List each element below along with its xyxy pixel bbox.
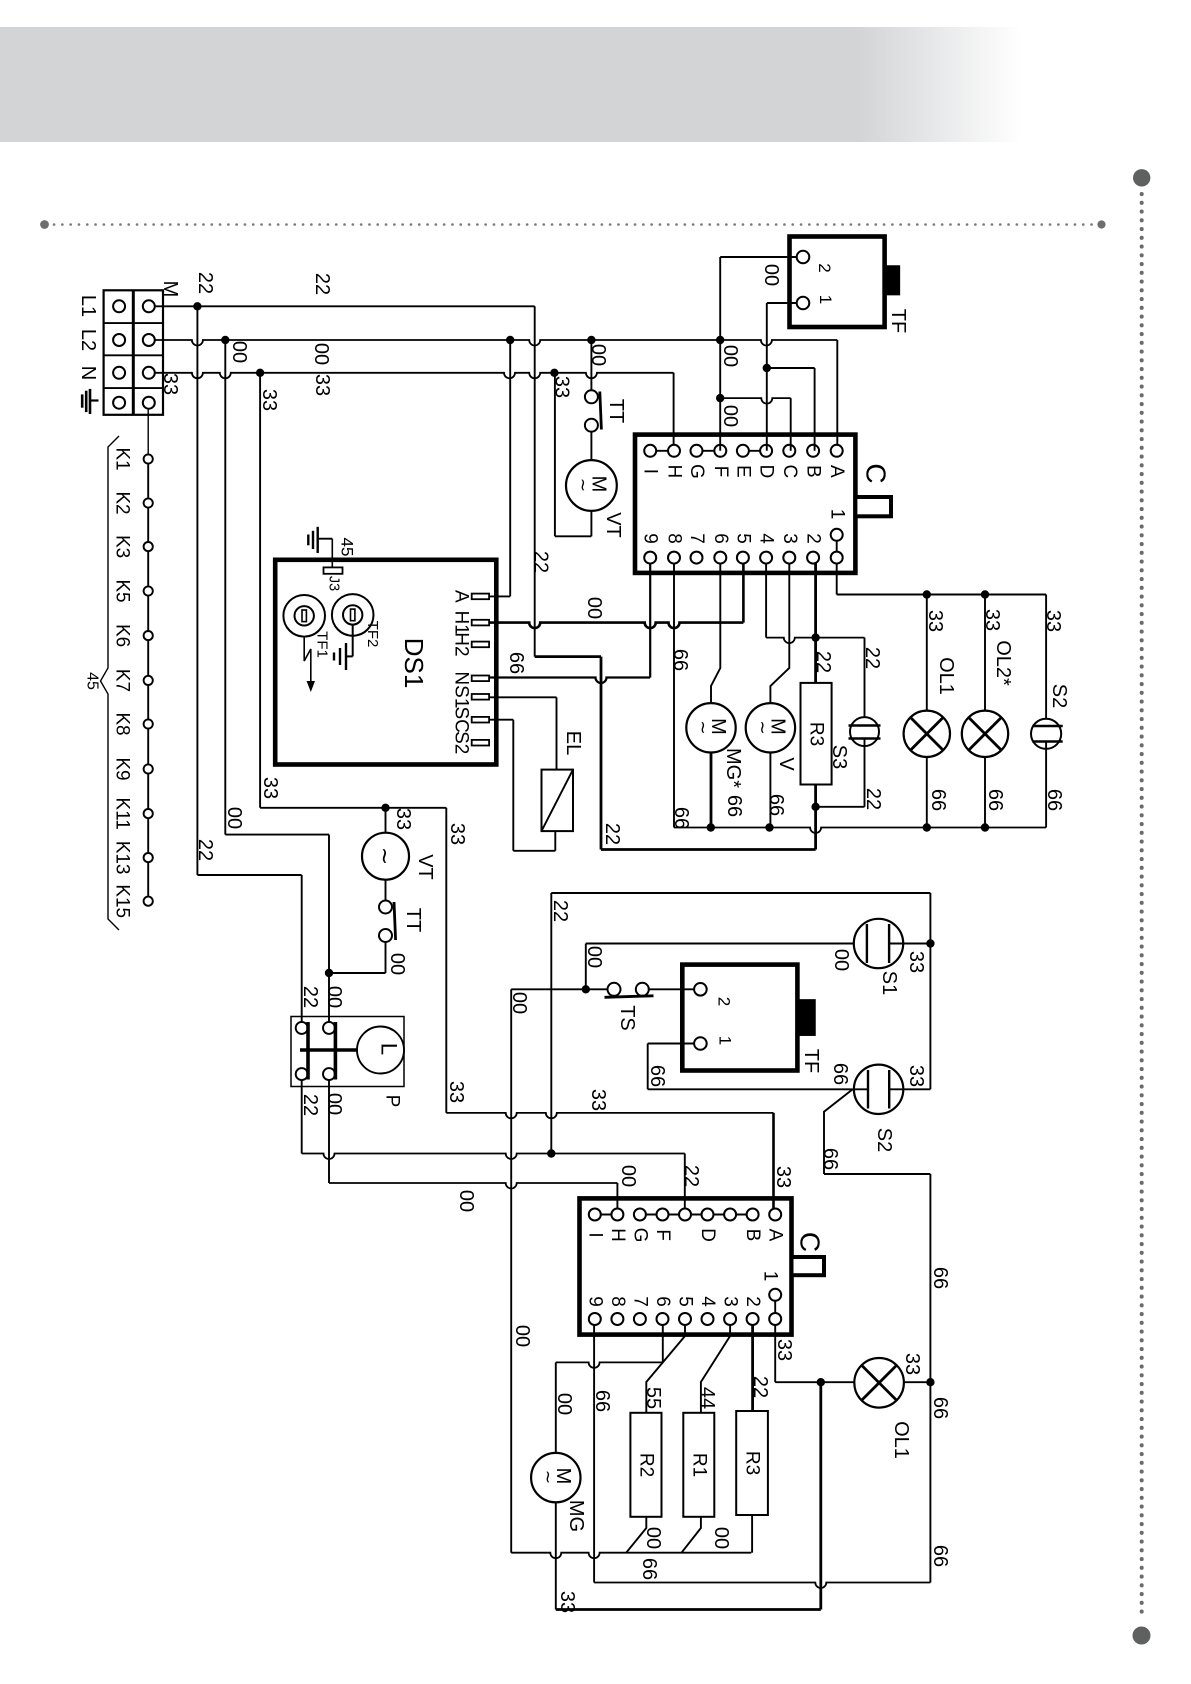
svg-text:∼: ∼ [753,720,772,734]
large grey dot bottom [1133,1627,1151,1645]
svg-text:A: A [451,590,472,603]
wire 66 from pin 8 to 66 bus [673,563,675,827]
svg-text:33: 33 [551,376,573,398]
svg-text:00: 00 [642,1527,664,1549]
svg-text:00: 00 [323,1093,345,1115]
svg-text:55: 55 [642,1387,664,1409]
svg-text:TF: TF [800,1049,822,1073]
svg-text:G: G [686,464,707,479]
svg-text:∼: ∼ [373,847,398,865]
surge arrow of TF1 [304,637,315,692]
svg-text:00: 00 [455,1190,477,1212]
svg-text:5: 5 [732,533,753,544]
svg-text:22: 22 [601,823,623,845]
wire to pin C [720,398,791,404]
svg-text:A: A [765,1229,786,1242]
svg-text:22: 22 [530,551,552,573]
wire 22 vertical drop [534,306,536,656]
svg-text:V: V [775,757,797,771]
wire 66 from DS1 N to pin 9 [489,678,650,684]
wire 33 bus corner down to pin H of connector C [673,373,675,451]
terminal block M (L1 L2 N PE mains connector) [104,290,163,415]
svg-text:66: 66 [669,649,691,671]
svg-text:∼: ∼ [538,1470,557,1484]
svg-text:3: 3 [720,1296,741,1307]
svg-text:S1: S1 [451,685,472,708]
svg-text:00: 00 [386,953,408,975]
svg-text:SC: SC [451,706,472,732]
wire 33 bus from N [154,373,673,379]
svg-text:TT: TT [402,908,424,932]
svg-text:33: 33 [773,1339,795,1361]
svg-text:66: 66 [929,1545,951,1567]
svg-text:TT: TT [605,399,627,423]
ground symbol at J3 [308,527,332,553]
svg-text:8: 8 [664,533,685,544]
svg-text:TF: TF [887,309,909,333]
rotated schematic [77,237,1070,1614]
svg-text:33: 33 [311,374,333,396]
connector C (upper) [635,435,892,573]
wire from pin 6 to motor MG* [711,563,720,703]
svg-text:33: 33 [587,1089,609,1111]
svg-text:00: 00 [760,264,782,286]
connector C lower key tab [792,1257,825,1275]
svg-text:00: 00 [710,1527,732,1549]
wire 66 from S2 left down to lamp line [824,1089,853,1174]
svg-text:I: I [640,469,661,474]
wire 00 from P to pin H of lower connector [328,1080,330,1183]
svg-text:D: D [697,1228,718,1242]
svg-text:TF1: TF1 [314,631,331,658]
svg-text:TF2: TF2 [364,621,381,648]
lamp OL1 (upper) [904,595,957,828]
svg-text:OL1: OL1 [935,657,957,695]
junction on 22 bus [193,302,201,310]
heater EL [542,731,585,831]
svg-text:G: G [629,1228,650,1243]
svg-text:S3: S3 [828,745,850,769]
resistor R3 [801,683,832,785]
connector C (lower) [580,1198,826,1334]
svg-text:N: N [77,366,99,380]
svg-text:33: 33 [258,389,280,411]
svg-text:44: 44 [696,1387,718,1409]
svg-text:E: E [732,465,753,478]
svg-text:66: 66 [819,1148,841,1170]
svg-text:MG*: MG* [722,748,744,788]
svg-text:22: 22 [299,986,321,1008]
svg-text:I: I [584,1232,605,1237]
wire 00 bus corner down to pin A of connector C [836,340,838,451]
wire 22 from junction to switches S1 S2 [550,893,552,1154]
wire from DS1 S1 to heater EL [489,696,556,698]
svg-text:7: 7 [686,533,707,544]
svg-text:33: 33 [905,1065,927,1087]
svg-text:OL2*: OL2* [992,640,1014,686]
svg-text:66: 66 [927,789,949,811]
svg-text:00: 00 [719,345,741,367]
wire 22 from pin 2 to resistor R3 [814,563,817,683]
svg-text:MG: MG [565,1500,587,1532]
svg-text:∼: ∼ [694,720,713,734]
svg-text:00: 00 [511,1325,533,1347]
svg-text:00: 00 [228,341,250,363]
svg-text:OL1: OL1 [890,1421,912,1459]
svg-text:K3: K3 [112,535,133,558]
horizontal dotted rule [54,223,1096,226]
wire from DS1 SC to heater EL bottom [489,719,513,721]
junction pin2/pin4 [811,633,819,641]
wire 66 from TF pin 1 to S2 left [648,1043,694,1045]
svg-text:33: 33 [159,373,181,395]
svg-text:22: 22 [862,788,884,810]
thermal cutout TF (lower) [682,965,797,1071]
svg-text:L1: L1 [77,295,99,317]
svg-text:K9: K9 [112,757,133,780]
svg-text:22: 22 [194,272,216,294]
DS1 pin stubs A H1 H2 N S1 SC S2 [451,590,490,754]
wire 00 branch from L2 dot down left side [224,340,226,835]
svg-text:22: 22 [861,647,883,669]
svg-text:R3: R3 [806,722,827,746]
wire 22 branch from L1 dot down left side [196,306,198,875]
jumper J3 [324,567,343,591]
wire 33 branch from N dot down to lower section [259,373,261,808]
wire 22 from L1 drop to R3 junction [535,655,601,658]
grey header band [0,27,1022,142]
vertical dotted rule [1140,194,1144,1620]
svg-text:00: 00 [323,986,345,1008]
svg-text:66: 66 [723,795,745,817]
motor V [746,703,797,771]
svg-text:00: 00 [508,992,530,1014]
svg-text:EL: EL [562,731,584,755]
svg-text:22: 22 [749,1376,771,1398]
svg-text:S1: S1 [878,971,900,995]
svg-text:5: 5 [675,1296,696,1307]
svg-text:B: B [803,465,824,478]
svg-text:45: 45 [84,672,101,690]
connector C key tab [855,497,891,516]
junction 22/P line [547,1149,555,1157]
wire 00 from pin 6 to motor MG [662,1325,664,1363]
svg-text:M: M [159,281,181,298]
svg-text:22: 22 [549,900,571,922]
svg-text:K6: K6 [112,624,133,647]
svg-text:33: 33 [772,1166,794,1188]
wire 66 MG* to 66 bus [710,753,713,828]
svg-text:33: 33 [259,777,281,799]
svg-text:H1: H1 [451,610,472,634]
svg-text:33: 33 [556,1591,578,1613]
wire 45 to jumper J3 [331,539,333,568]
svg-text:66: 66 [984,789,1006,811]
wire 22 from pin 2 to resistor R3 (lower) [751,1325,754,1411]
wire 33 to pin A of lower connector C [446,1113,773,1119]
svg-text:4: 4 [756,533,777,544]
junction TS [582,985,590,993]
connector C lower bottom pin row [584,1271,781,1325]
thermostat TS [605,983,654,1031]
svg-text:66: 66 [591,1390,613,1412]
wire 44 from pin 3 to resistor R1 [701,1325,730,1413]
svg-text:S2: S2 [873,1128,895,1152]
wire 33 from MG bottom [555,1502,557,1609]
svg-text:N: N [451,671,472,685]
wire 66 bus (upper) [674,828,1046,834]
vent motor VT (lower) [362,808,436,880]
svg-text:B: B [742,1229,763,1242]
junction TF pin1 / pin B wire [763,364,771,372]
junction at OL1 right [926,1378,934,1386]
svg-text:D: D [756,465,777,479]
svg-text:33: 33 [901,1353,923,1375]
svg-text:00: 00 [587,344,609,366]
resistor R1 [683,1413,714,1517]
bracket 45 spanning contact chain [84,436,120,930]
svg-text:6: 6 [710,533,731,544]
wire R3 bottom to junction [814,785,817,807]
resistor R2 [630,1413,661,1517]
svg-text:33: 33 [446,823,468,845]
door interlock TT (lower) [379,880,424,942]
wire S1 right plate to 22 line [889,943,930,945]
wire 00 bus from L2 [154,340,837,346]
svg-text:1: 1 [827,509,848,520]
svg-text:6: 6 [652,1296,673,1307]
junction OL1 top [923,590,931,598]
TF mounting tab [885,266,900,295]
svg-text:F: F [652,1229,673,1241]
door switch S2 (lower) [854,1065,903,1153]
junction on 00 branch at lower TT wire [325,969,333,977]
junction dots on 66 bus [707,823,715,831]
svg-text:2: 2 [803,533,824,544]
connector C lower pin row 1-9 [640,509,848,564]
svg-text:R1: R1 [689,1453,710,1477]
junction of TF2 wire at pin C line [716,394,724,402]
motor MG* [686,703,744,788]
svg-text:00: 00 [583,597,605,619]
svg-text:00: 00 [583,946,605,968]
svg-text:66: 66 [929,1397,951,1419]
wire 66 from pin 9 [593,1325,595,1583]
svg-text:00: 00 [617,1165,639,1187]
svg-text:H2: H2 [451,632,472,656]
wire from pin 4 to S3 [766,638,864,644]
svg-text:00: 00 [719,405,741,427]
svg-text:C: C [861,463,892,483]
svg-text:00: 00 [553,1393,575,1415]
wire TS to TF pin 2 (lower) [648,988,701,990]
svg-text:K2: K2 [112,491,133,514]
svg-text:9: 9 [640,533,661,544]
svg-text:P: P [382,1095,403,1108]
svg-text:66: 66 [929,1267,951,1289]
svg-text:TS: TS [616,1005,638,1031]
svg-text:22: 22 [680,1165,702,1187]
svg-text:R2: R2 [636,1453,657,1477]
svg-text:33: 33 [392,808,414,830]
svg-text:7: 7 [629,1296,650,1307]
junction OL1 left [817,1378,825,1386]
svg-text:66: 66 [1043,789,1065,811]
door interlock TT (upper) [585,340,627,432]
ground symbol of TF2 [334,625,353,670]
wire from TF pin 1 down to pin D [767,302,797,304]
pressure switch S3 [828,717,881,769]
svg-text:K1: K1 [112,447,133,470]
ground symbol PE at terminal block [82,389,98,414]
svg-text:33: 33 [445,1081,467,1103]
wire 66 down right side to OL1 [929,1174,931,1583]
svg-text:1: 1 [716,1036,735,1045]
wire from DS1 pin A to 00 bus [489,595,510,597]
svg-text:F: F [710,466,731,478]
svg-text:9: 9 [584,1296,605,1307]
svg-text:66: 66 [638,1558,660,1580]
svg-text:8: 8 [607,1296,628,1307]
motor MG [531,1453,587,1532]
svg-text:3: 3 [779,533,800,544]
wire R2 bottom to 00 bus [626,1517,646,1553]
svg-text:2: 2 [742,1296,763,1307]
wire from PE terminal to contact chain [147,408,149,455]
wire 33 from VT to 33 bus [590,511,592,536]
svg-text:45: 45 [338,538,357,557]
svg-text:22: 22 [311,273,333,295]
resistor R3 (lower) [736,1411,768,1515]
svg-text:DS1: DS1 [399,638,429,689]
svg-text:00: 00 [223,807,245,829]
svg-text:R3: R3 [742,1451,763,1475]
svg-text:K13: K13 [112,841,133,875]
junction S1 [926,939,934,947]
junction on 33 branch at vent motor VT [381,804,389,812]
svg-text:66: 66 [646,1065,668,1087]
svg-text:K11: K11 [112,797,133,829]
junction R3/S3/22 [811,803,819,811]
svg-text:K8: K8 [112,712,133,735]
wire 22 from P to pin E of lower connector [301,1080,303,1154]
svg-text:S2: S2 [1048,684,1070,708]
svg-text:33: 33 [905,951,927,973]
svg-text:K5: K5 [112,579,133,602]
svg-text:H: H [664,465,685,479]
svg-text:K7: K7 [112,669,133,692]
wire S2 to 66 bus [1045,742,1047,828]
svg-text:VT: VT [602,512,624,538]
wire 00 thermostat line [511,988,608,990]
svg-text:4: 4 [697,1296,718,1307]
timer module DS1 [275,560,496,765]
svg-text:66: 66 [505,652,527,674]
svg-text:C: C [795,1232,826,1252]
door switch S1 [854,919,903,995]
svg-text:2: 2 [815,263,834,272]
wire 00 up to S1 [585,944,587,990]
svg-text:22: 22 [299,1094,321,1116]
svg-text:VT: VT [414,854,436,880]
interference suppressor TF2 inside DS1 [332,594,381,647]
wire S2 right plate to 22 line [889,1088,930,1090]
wire 22 bus from L1 [154,305,534,307]
wire 00 from TF pin 2 to 00 bus [720,256,797,258]
svg-text:∼: ∼ [574,478,593,492]
junction OL2 top [981,590,989,598]
pressure switch P [291,1017,404,1108]
wire S3 to R3 bottom junction [864,739,866,807]
lamp OL1 (lower) [854,1358,912,1459]
TF lower mounting tab [797,1000,815,1035]
svg-text:1: 1 [760,1271,781,1282]
svg-text:S2: S2 [451,731,472,754]
svg-text:H: H [607,1228,628,1242]
svg-text:22: 22 [812,651,834,673]
svg-text:00: 00 [310,343,332,365]
wire 33 from pin 1 to lamps [836,563,838,594]
connector C lower upper pin row [584,1209,785,1243]
wire R3 bottom to 00 bus [751,1515,753,1553]
svg-text:L: L [377,1043,402,1055]
svg-text:C: C [779,465,800,479]
svg-text:66: 66 [670,807,692,829]
wire to pin B [767,367,815,369]
wire 33 from pin 1 to lamp OL1 (lower) [774,1325,776,1383]
wire 66 V to 66 bus [769,753,771,828]
wire 00 from TT to 00 branch [385,941,387,973]
wire 00 from DS1 H1 to pin 5 [489,623,743,629]
svg-text:L2: L2 [77,329,99,351]
lamp OL2* [962,595,1014,828]
wire 00 long vertical to bottom bus [511,1553,751,1559]
program switch contact chain K1-K15 [112,447,153,918]
svg-text:33: 33 [1042,610,1064,632]
svg-text:J3: J3 [326,576,342,591]
svg-text:1: 1 [816,295,835,304]
svg-text:A: A [826,465,847,478]
svg-text:2: 2 [715,997,734,1006]
svg-text:K15: K15 [112,884,133,918]
svg-text:22: 22 [194,839,216,861]
svg-text:66: 66 [829,1063,851,1085]
interference suppressor TF1 inside DS1 [283,595,330,658]
junction dots on 33 bus [256,369,264,377]
large grey dot top [1133,169,1150,186]
junction dots on 00 bus [221,336,229,344]
svg-text:66: 66 [765,794,787,816]
connector C upper pin row A-I [640,445,848,479]
door switch S2 (upper) [1031,684,1070,749]
thermal cutout TF (upper) [790,237,885,328]
wire 55 from pin 5 to resistor R2 [646,1325,685,1413]
vent motor VT (upper) [566,431,624,538]
wire from pin 3 to motor V [770,563,789,703]
wire R1 bottom to 00 bus [682,1517,701,1553]
svg-text:00: 00 [830,949,852,971]
